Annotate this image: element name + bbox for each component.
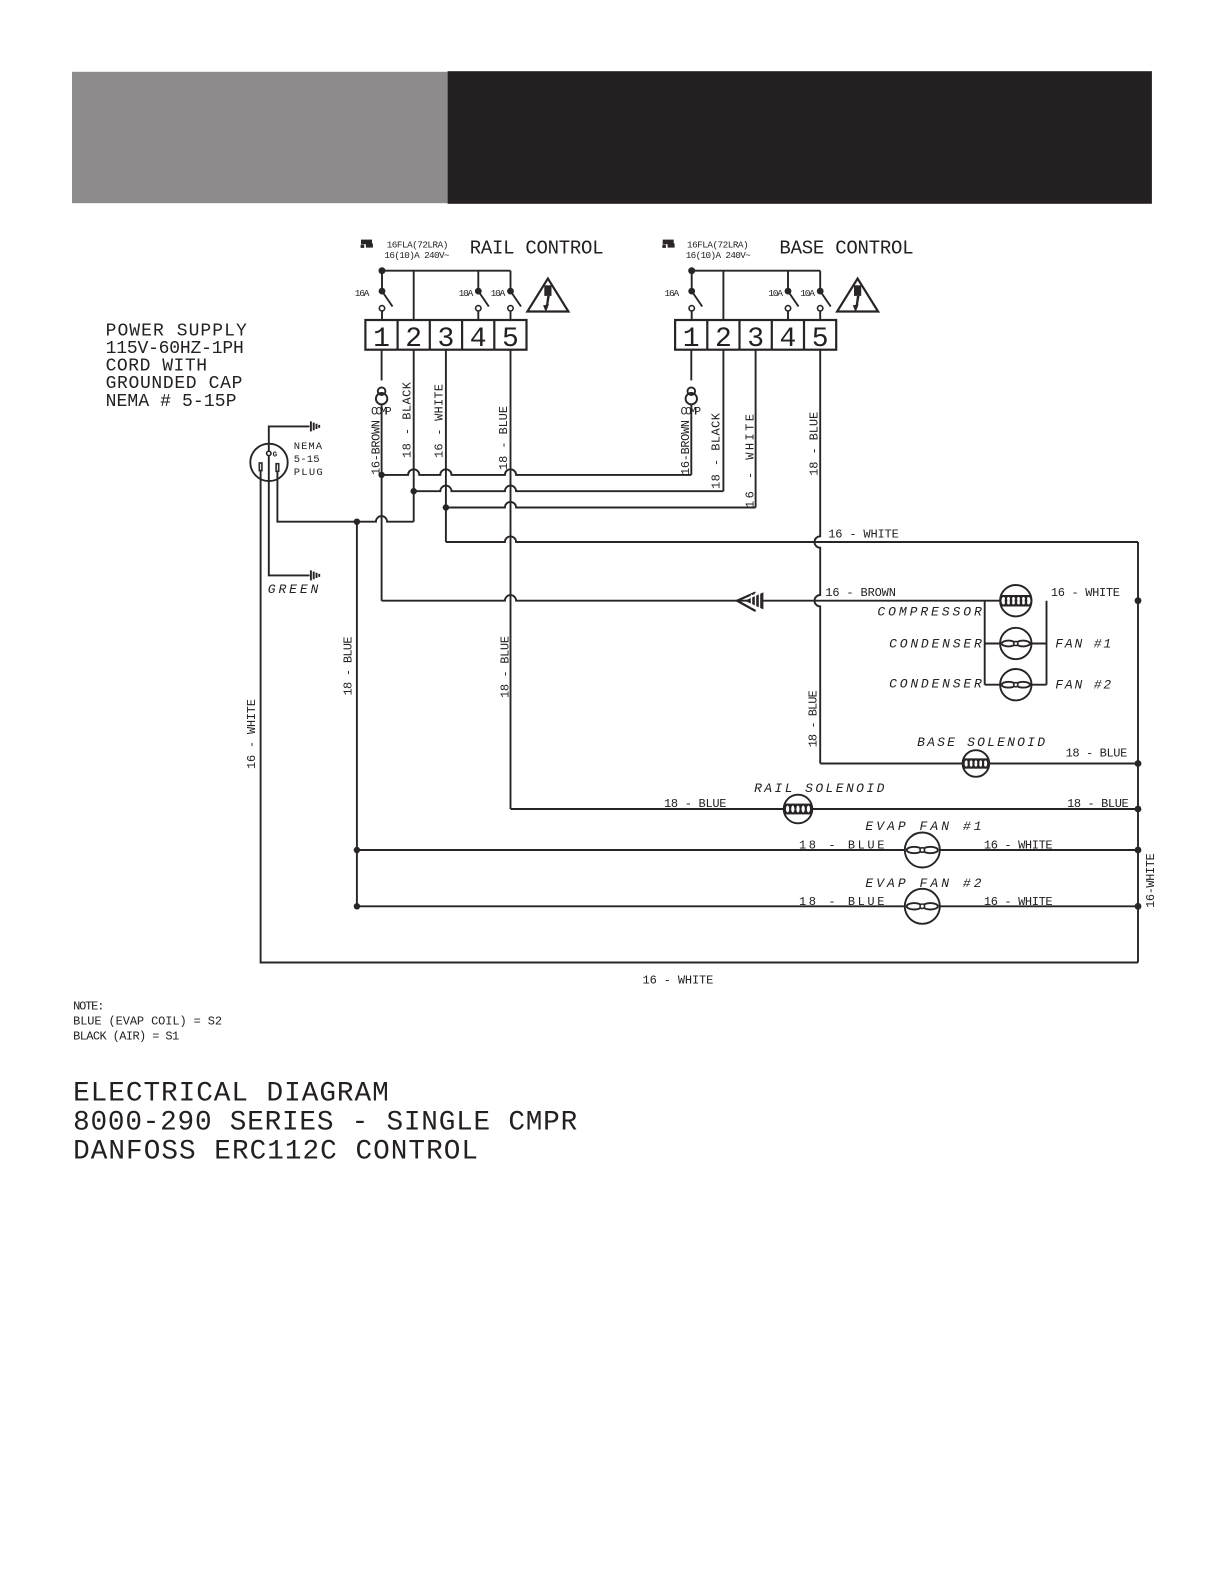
svg-text:10A: 10A [459,288,474,299]
svg-text:16A: 16A [355,288,370,299]
svg-text:18 - BLUE: 18 - BLUE [1067,797,1129,811]
svg-text:18 - BLUE: 18 - BLUE [498,636,512,698]
svg-text:16-BROWN: 16-BROWN [370,420,384,475]
svg-text:18 - BLUE: 18 - BLUE [1066,747,1128,761]
svg-text:16-WHITE: 16-WHITE [1144,853,1158,908]
svg-text:10A: 10A [800,288,815,299]
svg-text:4: 4 [470,324,487,355]
svg-text:16(10)A 240V~: 16(10)A 240V~ [384,250,450,261]
svg-text:16-BROWN: 16-BROWN [679,420,693,475]
svg-text:10A: 10A [768,288,783,299]
svg-text:RAIL CONTROL: RAIL CONTROL [470,238,604,260]
svg-text:BLUE (EVAP COIL) = S2: BLUE (EVAP COIL) = S2 [73,1015,222,1029]
svg-text:18 - BLUE: 18 - BLUE [807,690,821,747]
svg-text:16 - WHITE: 16 - WHITE [1051,586,1120,600]
svg-text:16(10)A 240V~: 16(10)A 240V~ [686,250,752,261]
svg-text:16 - WHITE: 16 - WHITE [433,384,447,458]
svg-text:18 - BLUE: 18 - BLUE [808,412,822,476]
svg-text:CONDENSER: CONDENSER [889,676,982,691]
svg-text:18 - BLUE: 18 - BLUE [799,838,884,852]
svg-text:GREEN: GREEN [268,582,319,597]
svg-text:16 - BROWN: 16 - BROWN [825,586,896,600]
svg-text:16 - WHITE: 16 - WHITE [984,838,1053,852]
svg-text:18 - BLUE: 18 - BLUE [342,637,356,696]
svg-text:NOTE:: NOTE: [73,1000,104,1014]
svg-text:5-15: 5-15 [294,454,320,466]
svg-text:18 - BLACK: 18 - BLACK [710,412,724,489]
svg-text:8000-290 SERIES - SINGLE CMPR: 8000-290 SERIES - SINGLE CMPR [73,1108,577,1139]
svg-text:NEMA # 5-15P: NEMA # 5-15P [106,392,237,412]
svg-text:10A: 10A [491,288,506,299]
svg-text:18 - BLUE: 18 - BLUE [664,797,727,811]
svg-text:BASE CONTROL: BASE CONTROL [779,238,913,260]
svg-text:G: G [273,452,278,460]
svg-text:18 - BLACK: 18 - BLACK [401,381,415,458]
svg-text:BLACK (AIR) = S1: BLACK (AIR) = S1 [73,1029,179,1043]
svg-text:16 - WHITE: 16 - WHITE [984,895,1053,909]
svg-text:COMP: COMP [681,406,702,418]
svg-text:16 - WHITE: 16 - WHITE [245,699,259,769]
svg-text:EVAP FAN #2: EVAP FAN #2 [865,876,981,891]
svg-text:DANFOSS ERC112C CONTROL: DANFOSS ERC112C CONTROL [73,1136,478,1167]
svg-text:EVAP FAN #1: EVAP FAN #1 [865,819,981,834]
svg-text:CONDENSER: CONDENSER [889,637,982,652]
svg-text:PLUG: PLUG [294,467,323,479]
svg-text:16A: 16A [665,288,680,299]
svg-text:4: 4 [779,324,796,355]
svg-text:18 - BLUE: 18 - BLUE [799,895,884,909]
svg-text:COMP: COMP [371,406,392,418]
svg-text:ELECTRICAL DIAGRAM: ELECTRICAL DIAGRAM [73,1078,389,1109]
svg-text:16 - WHITE: 16 - WHITE [828,528,899,542]
svg-text:NEMA: NEMA [294,441,323,453]
svg-text:18 - BLUE: 18 - BLUE [497,406,511,470]
svg-text:16 - WHITE: 16 - WHITE [643,974,714,988]
